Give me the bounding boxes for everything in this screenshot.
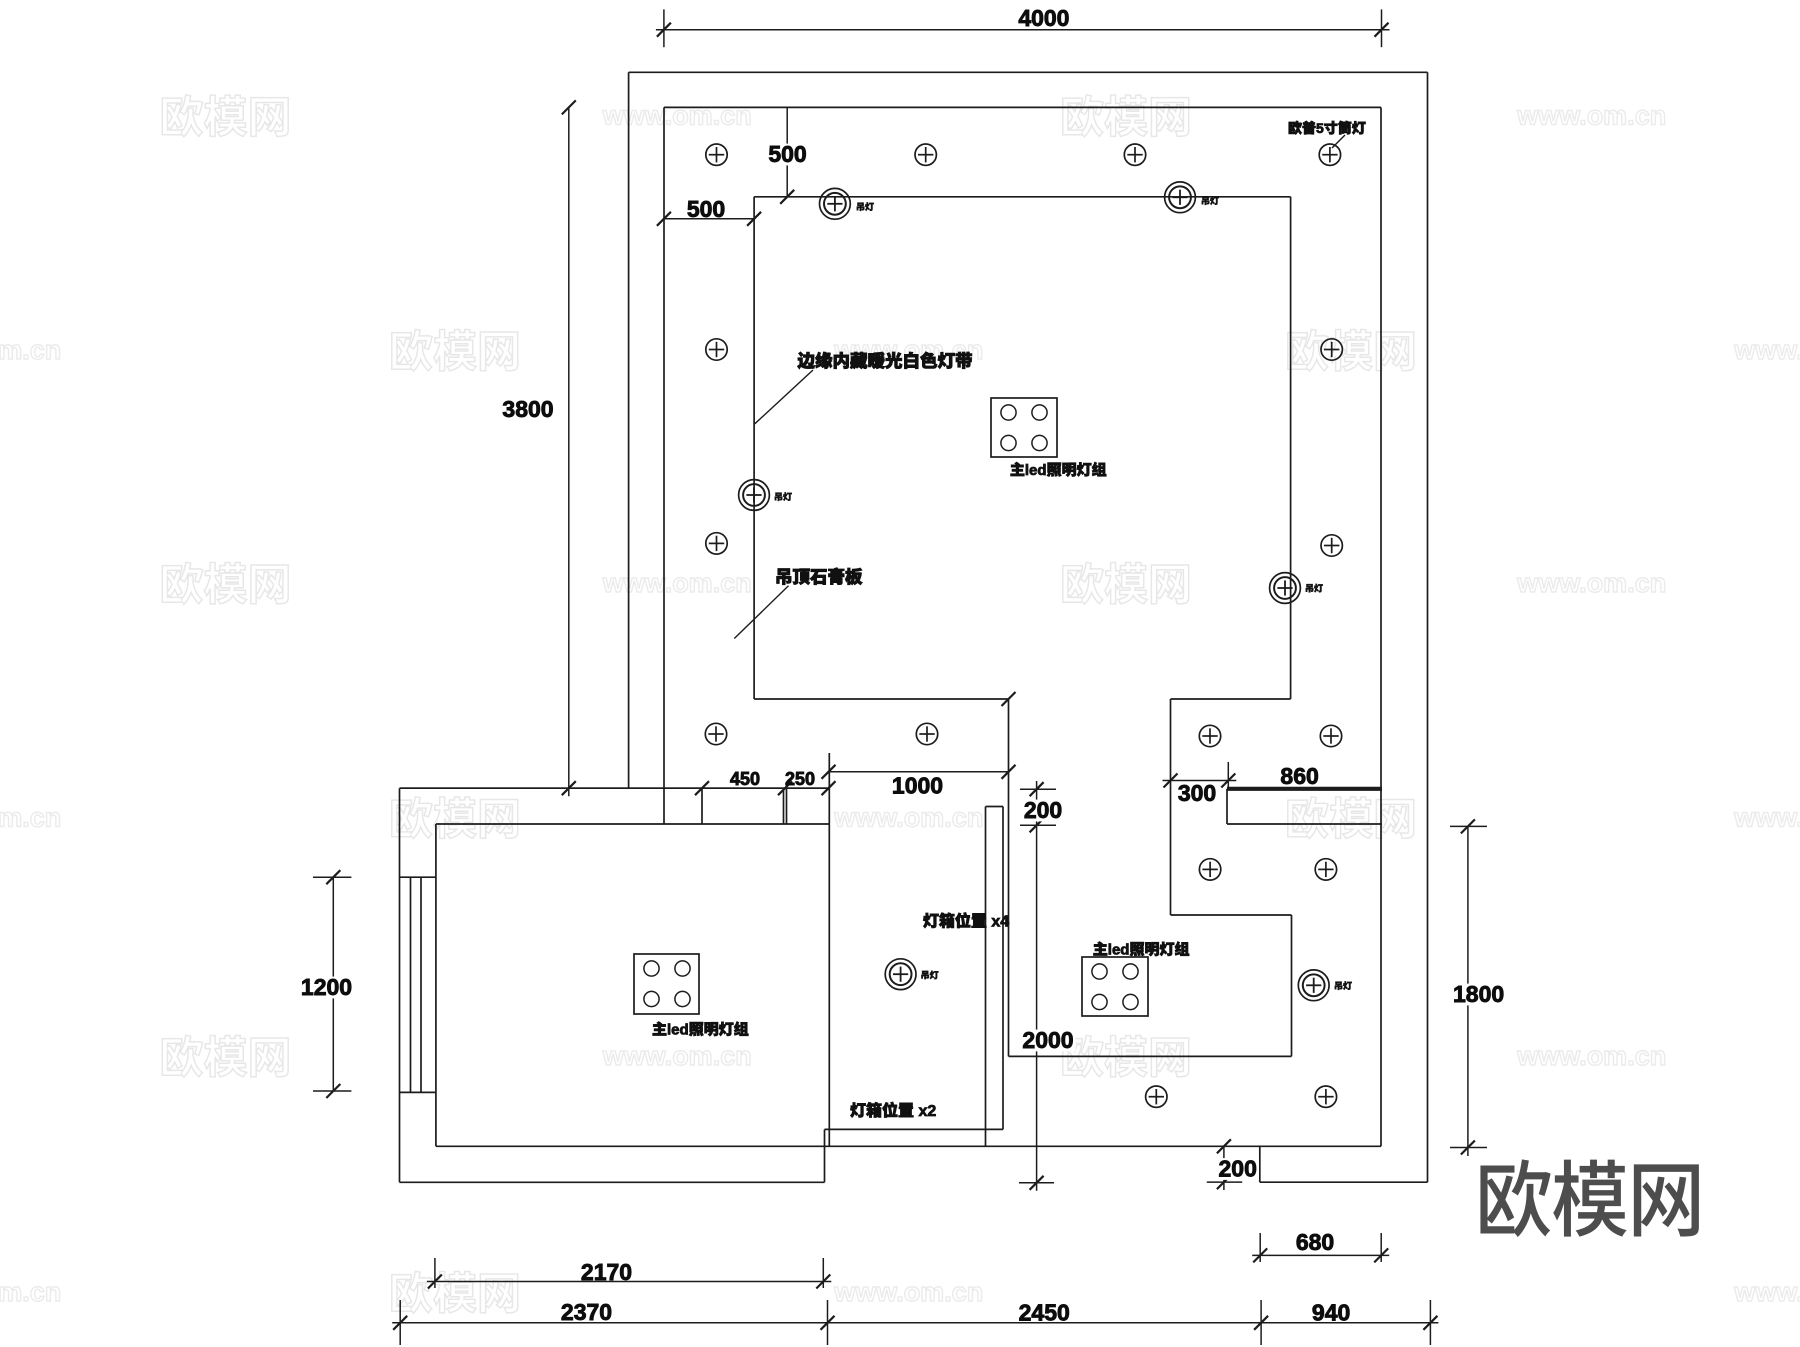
svg-text:led: led <box>1108 942 1130 959</box>
svg-text:www.om.cn: www.om.cn <box>602 101 752 131</box>
svg-text:www.om.cn: www.om.cn <box>833 803 983 833</box>
svg-text:680: 680 <box>1296 1229 1334 1255</box>
svg-text:860: 860 <box>1280 763 1318 789</box>
svg-text:300: 300 <box>1178 780 1216 806</box>
svg-text:www.om.cn: www.om.cn <box>1516 1041 1666 1071</box>
svg-text:2450: 2450 <box>1019 1299 1070 1325</box>
svg-text:1200: 1200 <box>301 974 352 1000</box>
svg-text:x2: x2 <box>914 1103 936 1120</box>
svg-text:3800: 3800 <box>502 396 553 422</box>
svg-text:www.om.cn: www.om.cn <box>0 335 61 365</box>
svg-text:www.om.cn: www.om.cn <box>0 1277 61 1307</box>
svg-text:500: 500 <box>768 141 806 167</box>
svg-text:500: 500 <box>687 196 725 222</box>
svg-text:250: 250 <box>785 769 815 789</box>
svg-text:www.om.cn: www.om.cn <box>1733 335 1800 365</box>
svg-text:5: 5 <box>1316 120 1324 136</box>
svg-text:led: led <box>667 1022 689 1039</box>
svg-text:www.om.cn: www.om.cn <box>833 1277 983 1307</box>
svg-text:www.om.cn: www.om.cn <box>0 803 61 833</box>
svg-text:1000: 1000 <box>892 773 943 799</box>
svg-text:www.om.cn: www.om.cn <box>602 1041 752 1071</box>
svg-text:1800: 1800 <box>1453 981 1504 1007</box>
svg-text:www.om.cn: www.om.cn <box>1733 803 1800 833</box>
svg-text:2170: 2170 <box>581 1259 632 1285</box>
svg-text:450: 450 <box>730 769 760 789</box>
svg-text:940: 940 <box>1312 1299 1350 1325</box>
svg-text:4000: 4000 <box>1018 5 1069 31</box>
svg-text:www.om.cn: www.om.cn <box>1733 1277 1800 1307</box>
svg-text:2000: 2000 <box>1022 1027 1073 1053</box>
svg-text:2370: 2370 <box>561 1299 612 1325</box>
svg-text:200: 200 <box>1024 797 1062 823</box>
svg-text:www.om.cn: www.om.cn <box>1516 568 1666 598</box>
svg-text:www.om.cn: www.om.cn <box>602 568 752 598</box>
svg-text:led: led <box>1025 462 1047 479</box>
svg-text:x4: x4 <box>987 914 1009 931</box>
svg-text:200: 200 <box>1219 1156 1257 1182</box>
svg-text:www.om.cn: www.om.cn <box>1516 101 1666 131</box>
